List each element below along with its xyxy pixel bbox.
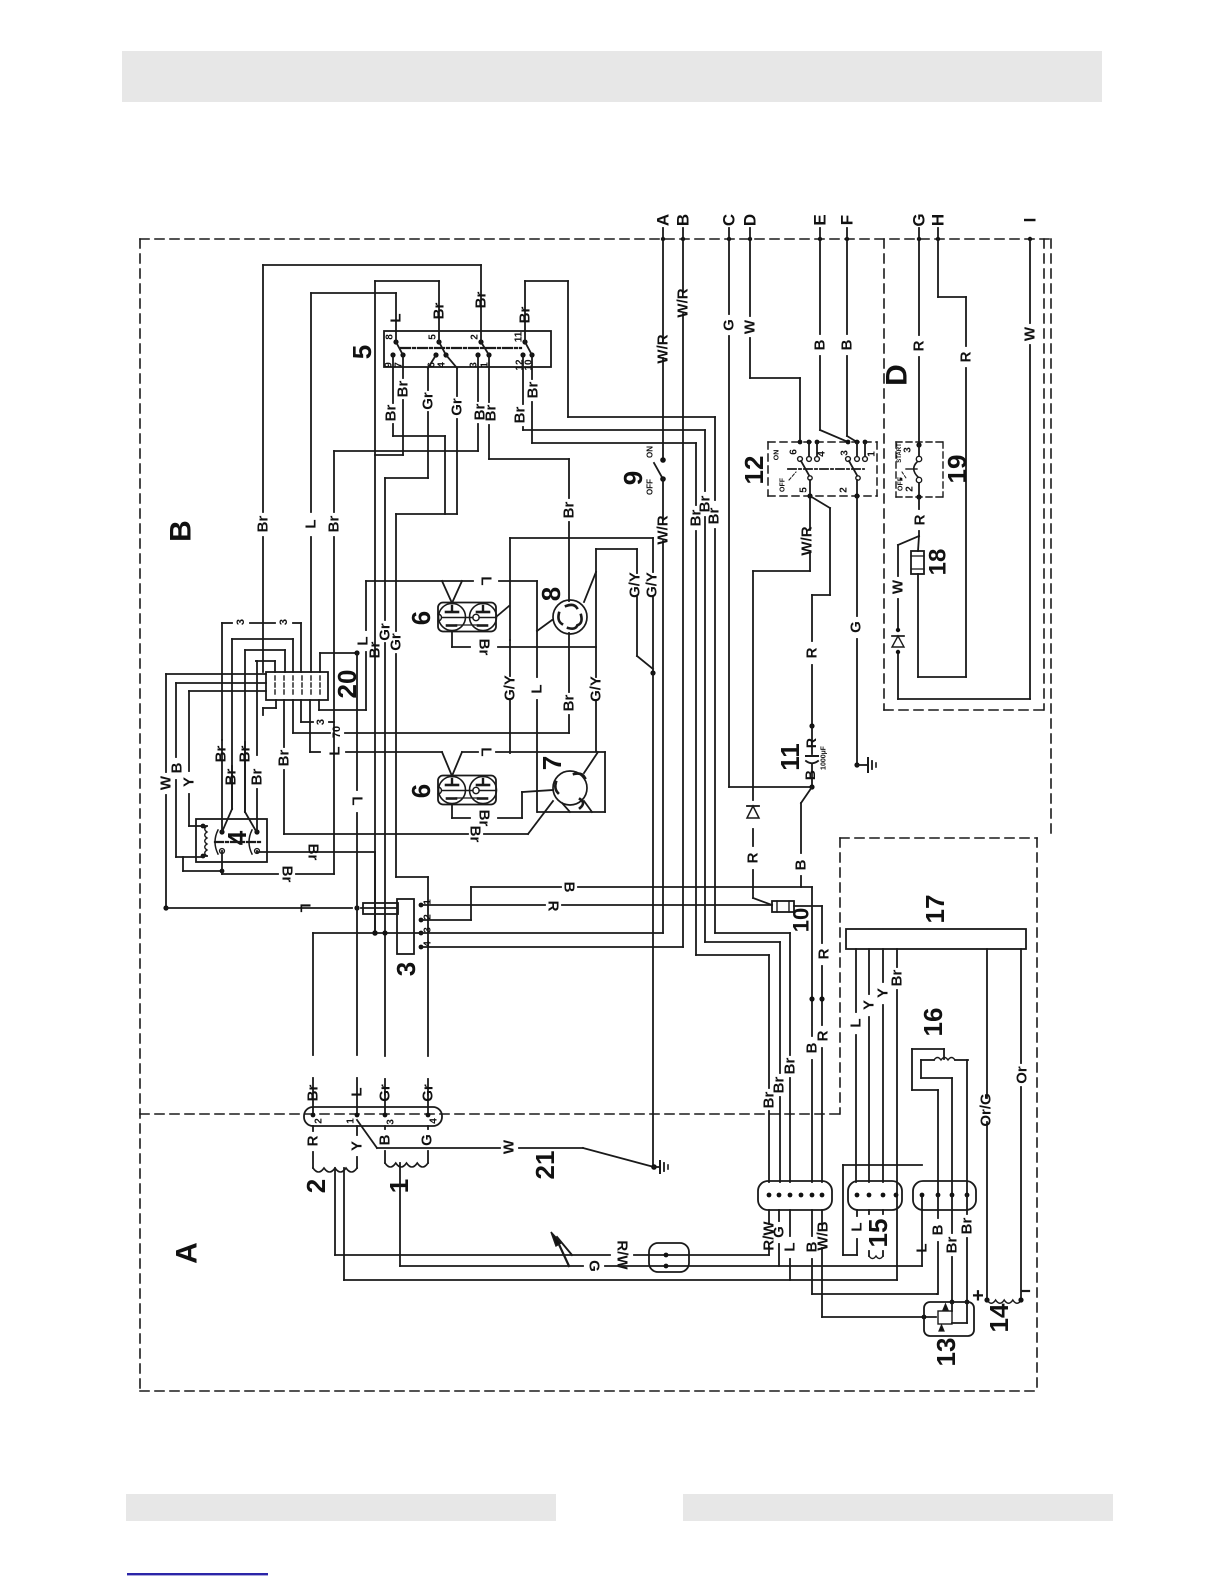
wire label R below pin2	[305, 1135, 322, 1146]
dashed box B left edge / box A left edge	[139, 239, 141, 1391]
wire W/R from switch 9 down to connector 3 pin 3 row	[662, 479, 664, 933]
wire W/B below C1	[822, 1210, 936, 1319]
harness terminal H	[929, 214, 948, 241]
wire W from terminal I	[1029, 239, 1031, 699]
wire label Br reversed below 6 upper	[476, 639, 493, 656]
svg-text:Gr: Gr	[449, 398, 466, 416]
svg-text:A: A	[654, 214, 673, 226]
svg-text:R: R	[745, 852, 762, 863]
wire label Br x232	[223, 769, 240, 786]
wire label L lower left	[327, 746, 344, 755]
wire W/R pin4 wire	[421, 946, 683, 948]
svg-text:W: W	[1022, 326, 1039, 341]
wire G below C1	[778, 1210, 780, 1266]
diode symbol	[747, 806, 759, 818]
svg-text:C: C	[720, 214, 739, 226]
svg-text:6: 6	[789, 449, 800, 455]
fuse 18 designator	[925, 549, 952, 576]
wire Br ignition terminal 2 loop	[263, 265, 481, 342]
svg-text:4: 4	[429, 1118, 440, 1124]
wire tap connector 6 upper middle to G/Y	[496, 606, 509, 617]
wire W/R from terminal A upper	[662, 228, 664, 460]
wire label Br x375 mid	[367, 642, 384, 659]
wire 3 from connector 20 bottom	[301, 700, 334, 722]
connector 6 upper body	[438, 603, 497, 632]
connector C2 pin 4	[894, 1193, 899, 1198]
wire Gr jog at y478	[385, 477, 428, 479]
wire L to connector 6 upper	[366, 581, 537, 631]
svg-text:G: G	[586, 1260, 603, 1272]
svg-text:Br: Br	[223, 769, 240, 786]
PTO switch 12 open contact x865	[863, 457, 868, 462]
pin label 70	[331, 726, 343, 738]
wire Or from control box 17 to battery minus	[1020, 949, 1022, 1300]
svg-text:L: L	[478, 747, 495, 756]
wire L from control box 17	[855, 949, 857, 1182]
svg-text:L: L	[849, 1222, 866, 1231]
connector C3 body	[913, 1181, 976, 1210]
start switch 19 designator	[942, 455, 972, 484]
wire label Br x715	[706, 508, 723, 525]
wire label Br x257	[249, 769, 266, 786]
wire from connector 20 top pin to node L	[320, 650, 360, 672]
svg-text:A: A	[171, 1242, 204, 1264]
svg-text:2: 2	[301, 1179, 331, 1193]
svg-text:2: 2	[839, 487, 850, 493]
wire label W on I wire	[1022, 326, 1039, 341]
svg-text:B: B	[561, 882, 578, 893]
wire Br ignition terminal 3	[334, 355, 478, 451]
section label D	[881, 364, 914, 386]
ignition switch 5 terminal 6 contact	[427, 352, 439, 367]
svg-text:L: L	[349, 796, 366, 805]
connector C1 pin 4	[799, 1193, 804, 1198]
wire L long vertical x311	[310, 293, 312, 672]
svg-text:8: 8	[536, 587, 566, 601]
wire Br vertical x715 to fuel connector	[715, 417, 790, 1182]
svg-text:12: 12	[739, 456, 769, 485]
svg-text:G: G	[910, 213, 929, 226]
wire Br ignition terminal 5 loop	[375, 281, 439, 342]
light switch 9 lower contact	[660, 476, 666, 482]
svg-text:1: 1	[867, 451, 878, 457]
bottom left gray bar	[126, 1494, 556, 1521]
wire label W/R on B wire	[675, 288, 692, 317]
wire Br ignition terminal 12	[523, 355, 705, 430]
wire R from terminal G to start switch 19	[918, 228, 920, 442]
wire B to connector 20 left	[176, 682, 266, 684]
svg-text:4: 4	[817, 451, 828, 457]
wire label B x801	[793, 859, 810, 870]
svg-text:G/Y: G/Y	[627, 572, 644, 598]
wire W from fuse area with diode	[898, 536, 1030, 699]
wire label Br above connector 8	[561, 502, 578, 519]
svg-text:4: 4	[437, 362, 448, 368]
node Br junction x375	[372, 930, 377, 935]
capacitor 11 designator	[775, 743, 805, 771]
diode in box D	[892, 628, 904, 654]
section label A	[171, 1242, 204, 1264]
wire L net from H581 corner	[319, 581, 366, 710]
stator coil 2	[313, 1168, 357, 1172]
wire Br from connector 6 lower bottom	[452, 790, 553, 818]
svg-text:Gr: Gr	[377, 1084, 394, 1102]
wire Br below connector 8	[568, 633, 570, 733]
PTO switch blade left	[801, 461, 812, 480]
wire Gr link term9 to H514	[444, 436, 446, 514]
svg-text:B: B	[839, 339, 856, 350]
svg-text:6: 6	[406, 784, 436, 798]
connector 7 enclosure	[538, 752, 605, 812]
fuel sender 15 designator	[863, 1219, 893, 1248]
wire Br vertical x705	[705, 430, 780, 1182]
wire W/R from terminal B	[682, 228, 684, 947]
wire Br long vertical x263	[262, 265, 264, 672]
svg-text:B: B	[930, 1224, 947, 1235]
wire Br ignition terminal 9	[393, 355, 445, 436]
pin label 3 second on loop	[278, 619, 290, 625]
connector 3 pin 4	[419, 941, 434, 950]
connector C1 pin 2	[777, 1193, 782, 1198]
svg-text:R: R	[816, 948, 833, 959]
svg-text:5: 5	[428, 334, 439, 340]
wire G from PTO pin 2	[854, 496, 859, 768]
connector 3 pin 2	[419, 914, 434, 923]
svg-text:Br: Br	[782, 1058, 799, 1075]
PTO switch 12 top contact dot x848	[846, 440, 851, 445]
svg-text:3: 3	[278, 619, 290, 625]
wire label Br reversed on x834 wire	[467, 826, 484, 843]
PTO switch 12 box	[768, 442, 877, 496]
wire Gr vertical x396	[396, 514, 428, 1115]
connector A-B pin 1	[346, 1113, 360, 1124]
svg-text:Br: Br	[383, 405, 400, 422]
svg-text:Br: Br	[279, 866, 296, 883]
harness terminal A	[654, 214, 673, 241]
wire Gr ignition terminal 6	[428, 355, 436, 478]
wire y933 horizontal	[313, 932, 663, 934]
ignition switch 5 blade 11-10	[525, 342, 532, 355]
wire Br into relay top-right diagonal	[245, 742, 256, 831]
start switch 19 upper circle	[916, 445, 921, 462]
svg-text:L: L	[327, 746, 344, 755]
fuse 18 body	[911, 551, 924, 574]
wire loop rect y661	[256, 661, 275, 672]
engine ground symbol	[857, 758, 876, 772]
wire R from terminal H	[938, 228, 966, 677]
wire label R on capacitor feed	[804, 647, 821, 658]
svg-text:14: 14	[984, 1303, 1014, 1332]
stator coil 1 designator	[384, 1179, 414, 1193]
svg-text:Br: Br	[276, 750, 293, 767]
wire label Y first	[861, 1000, 878, 1010]
svg-text:L: L	[529, 684, 546, 693]
start switch 19 box	[896, 442, 943, 497]
svg-text:G: G	[419, 1134, 436, 1146]
start switch 19 pin 2	[905, 483, 922, 500]
wire G/Y left vertical x510	[509, 538, 511, 640]
svg-text:Br: Br	[237, 746, 254, 763]
svg-text:Or: Or	[1014, 1066, 1031, 1084]
svg-text:B: B	[165, 520, 198, 542]
wire label Y below pin1	[349, 1141, 366, 1151]
svg-text:I: I	[1021, 218, 1040, 223]
wire Br from fuel pump 16 inner	[951, 1078, 953, 1195]
connector 7 designator	[537, 756, 567, 770]
PTO switch stub x857	[856, 442, 858, 456]
svg-text:Br: Br	[305, 1085, 322, 1102]
svg-text:W: W	[890, 579, 907, 594]
svg-text:Br: Br	[959, 1218, 976, 1235]
wire L below C2 loop	[843, 1165, 922, 1255]
svg-text:Br: Br	[431, 303, 448, 320]
svg-text:B: B	[802, 770, 818, 780]
battery 14 plus sign	[972, 1285, 984, 1307]
PTO switch ON label	[774, 450, 781, 461]
wire label G below C1	[771, 1226, 788, 1238]
wire L down from connector 8	[537, 620, 552, 812]
wire G/Y vertical x637	[637, 549, 653, 669]
wire label R reversed on pin1 wire	[545, 901, 562, 912]
wire Y from control box 17 second	[882, 949, 884, 1182]
battery 14 minus sign	[1022, 1290, 1029, 1292]
svg-text:Y: Y	[875, 988, 892, 998]
wire B from connector 3 pin 2	[421, 887, 812, 920]
wire label B below C3	[930, 1224, 947, 1235]
connector 6 lower designator	[406, 784, 436, 798]
svg-text:5: 5	[347, 345, 377, 359]
PTO switch stub x809	[808, 442, 810, 456]
svg-text:Br: Br	[326, 516, 343, 533]
node L junction at x357	[354, 905, 359, 910]
wire label Br ignition 1	[483, 405, 500, 422]
connector C2 pin 2	[867, 1193, 872, 1198]
node junction x385 y933	[382, 930, 387, 935]
wire loop rect y639	[232, 639, 293, 809]
wire label Br ignition 7	[395, 381, 412, 398]
connector C2 pin 3	[881, 1193, 886, 1198]
harness terminal F	[838, 215, 857, 241]
svg-text:9: 9	[618, 471, 648, 485]
dashed box D left edge	[883, 239, 885, 710]
svg-text:W/R: W/R	[655, 515, 672, 544]
wire label Br below C3 pin4	[959, 1218, 976, 1235]
start switch 19 START label	[897, 443, 903, 463]
wire label Br reversed on relay output	[305, 844, 322, 861]
wire B from capacitor node	[801, 787, 812, 887]
wire label R above C1 pin6	[815, 1030, 832, 1041]
dashed box D right edge	[1043, 239, 1045, 710]
start switch 19 OFF label	[898, 476, 905, 491]
wire label Br ignition 12	[512, 407, 529, 424]
connector 3 pin 3	[419, 927, 434, 936]
svg-text:Gr: Gr	[388, 633, 405, 651]
dashed boundary A/B horizontal y=1114	[140, 1113, 840, 1115]
dashed box A bottom edge	[140, 1390, 1037, 1392]
wire label Gr above connector pin4	[420, 1084, 437, 1102]
start switch 19 blade	[914, 462, 918, 477]
svg-text:Br: Br	[771, 1077, 788, 1094]
dashed boundary step vertical x=840	[839, 838, 841, 1114]
relay 4 top-left contact	[219, 829, 224, 834]
wire label Br above C1 pin3	[782, 1058, 799, 1075]
svg-text:Br: Br	[561, 695, 578, 712]
regulator 13 internal wires	[952, 1302, 967, 1323]
wire label R/W reversed	[614, 1240, 631, 1270]
svg-text:R: R	[803, 738, 819, 748]
wire label Br above connector pin2	[305, 1085, 322, 1102]
PTO switch stub x865	[864, 442, 866, 456]
svg-text:Br: Br	[525, 382, 542, 399]
wire label W/B below C1	[815, 1221, 832, 1250]
wire label Br ignition 10	[525, 382, 542, 399]
ignition switch 5 blade 5-4	[439, 342, 446, 355]
svg-text:G: G	[721, 319, 738, 331]
svg-text:18: 18	[925, 549, 952, 576]
connector 20 pin bars	[275, 676, 320, 696]
wire W/R from PTO pin 5	[753, 496, 810, 571]
ignition switch 5 terminal 9 contact	[384, 352, 396, 367]
svg-text:13: 13	[931, 1338, 961, 1367]
connector 6 upper designator	[406, 611, 436, 625]
wire label R on H wire	[958, 351, 975, 362]
footer blue link underline	[127, 1573, 268, 1575]
wire G/Y vertical x653 to ground	[650, 538, 655, 1167]
wire Gr ignition terminal 4	[446, 355, 457, 514]
wire label Br reversed below 6 lower	[476, 810, 493, 827]
inline connector on R/W G wires	[649, 1243, 689, 1272]
svg-text:7: 7	[537, 756, 567, 770]
wire 70 from connector 20 bottom	[293, 700, 569, 733]
wire label B below pin3	[377, 1134, 394, 1145]
svg-text:15: 15	[863, 1219, 893, 1248]
fuse 10 body	[772, 901, 794, 912]
svg-text:R: R	[912, 514, 929, 525]
svg-text:G/Y: G/Y	[502, 675, 519, 701]
ignition switch 5 body	[384, 331, 551, 367]
svg-text:B: B	[377, 1134, 394, 1145]
svg-text:B: B	[793, 859, 810, 870]
svg-text:Y: Y	[861, 1000, 878, 1010]
wire label G on C wire	[721, 319, 738, 331]
wire label R on diode wire	[745, 852, 762, 863]
harness terminal C	[720, 214, 739, 241]
wire label Br on x263	[255, 516, 272, 533]
ignition switch 5 terminal 1 contact	[480, 352, 492, 367]
fuel sender 15 left leg	[868, 1210, 870, 1256]
wire B from terminal F to PTO switch	[847, 228, 857, 442]
control box 17 body	[846, 929, 1026, 949]
regulator 13 designator	[931, 1338, 961, 1367]
wire label L below connector 8	[529, 684, 546, 693]
svg-text:1: 1	[384, 1179, 414, 1193]
svg-text:Br: Br	[213, 746, 230, 763]
svg-text:L: L	[349, 1087, 366, 1096]
connector C1 pin 5	[810, 1193, 815, 1198]
wire label Br above C1 pin1	[761, 1092, 778, 1109]
wire label G/Y x596	[588, 676, 605, 702]
wire label L below C3	[914, 1243, 931, 1252]
ignition switch 5 terminal 5 contact	[428, 334, 442, 345]
svg-text:W: W	[158, 775, 175, 790]
wire label L above connector pin1	[349, 1087, 366, 1096]
connector 20 body	[266, 672, 328, 700]
wire R/W below C1	[768, 1210, 770, 1255]
svg-text:Br: Br	[688, 510, 705, 527]
relay 4 left contact arc	[215, 830, 218, 854]
svg-text:F: F	[838, 215, 857, 225]
svg-text:L: L	[848, 1018, 865, 1027]
wire label Br x222	[213, 746, 230, 763]
wire R diagonal from PTO pin 5	[809, 496, 830, 729]
wire label L x366 upper	[355, 636, 372, 645]
PTO switch 12 open contact x848	[846, 457, 851, 462]
wire R diode branch	[753, 571, 772, 905]
relay 4 body	[196, 819, 267, 862]
wire Br below C3 to regulator	[950, 1195, 955, 1304]
wire label R below switch 19	[912, 514, 929, 525]
wire label Or/G	[978, 1093, 995, 1126]
capacitor 11 label B	[802, 770, 818, 780]
wire label Br ignition 9	[383, 405, 400, 422]
svg-text:B: B	[674, 214, 693, 226]
wire Y from relay coil top	[189, 691, 203, 826]
wire label W stator tap	[501, 1139, 518, 1154]
svg-text:Or/G: Or/G	[978, 1093, 995, 1126]
top gray header bar	[122, 51, 1102, 102]
PTO switch 12 top contact dot x857	[855, 440, 860, 445]
relay 4 coil bottom junction	[201, 854, 207, 859]
wire label G/Y x510	[502, 675, 519, 701]
wire label B on F wire	[839, 339, 856, 350]
PTO switch pin label 6	[789, 449, 800, 455]
svg-text:Br: Br	[476, 810, 493, 827]
connector 7 body	[553, 771, 587, 808]
wire label Br ignition 3	[472, 404, 489, 421]
svg-text:ON: ON	[774, 450, 781, 461]
svg-text:W: W	[501, 1139, 518, 1154]
wire Br from control box 17	[896, 949, 898, 1280]
svg-text:Br: Br	[512, 407, 529, 424]
wire L at connector 6 lower right	[452, 752, 605, 776]
PTO switch 12 top contact dot x817	[815, 440, 820, 445]
wire label Br x705	[697, 496, 714, 513]
svg-text:19: 19	[942, 455, 972, 484]
wire Gr jog at y514	[396, 513, 457, 515]
connector C1 pin 1	[767, 1193, 772, 1198]
wire label Br x245	[237, 746, 254, 763]
svg-text:L: L	[297, 903, 314, 912]
wire L link C2-C3	[921, 1195, 923, 1266]
svg-text:3: 3	[386, 1119, 397, 1125]
spark kill 21 designator	[530, 1151, 560, 1180]
svg-text:W: W	[742, 319, 759, 334]
relay 4 bottom-left contact	[220, 849, 225, 854]
svg-text:G/Y: G/Y	[588, 676, 605, 702]
PTO switch blade right	[849, 461, 860, 480]
wire Gr vertical x385	[384, 478, 386, 1115]
svg-text:B: B	[804, 1042, 821, 1053]
PTO switch 12 top contact dot x800	[798, 440, 803, 445]
wire Br long vertical x334	[333, 451, 335, 874]
svg-text:17: 17	[920, 895, 950, 924]
wire loop rect y650	[245, 650, 285, 812]
svg-text:Br: Br	[517, 307, 534, 324]
wire Br vertical x375 relay tee	[374, 852, 376, 933]
node junction x375 y933	[372, 930, 377, 935]
regulator 13 body	[924, 1302, 974, 1336]
connector 3 body	[397, 899, 414, 954]
